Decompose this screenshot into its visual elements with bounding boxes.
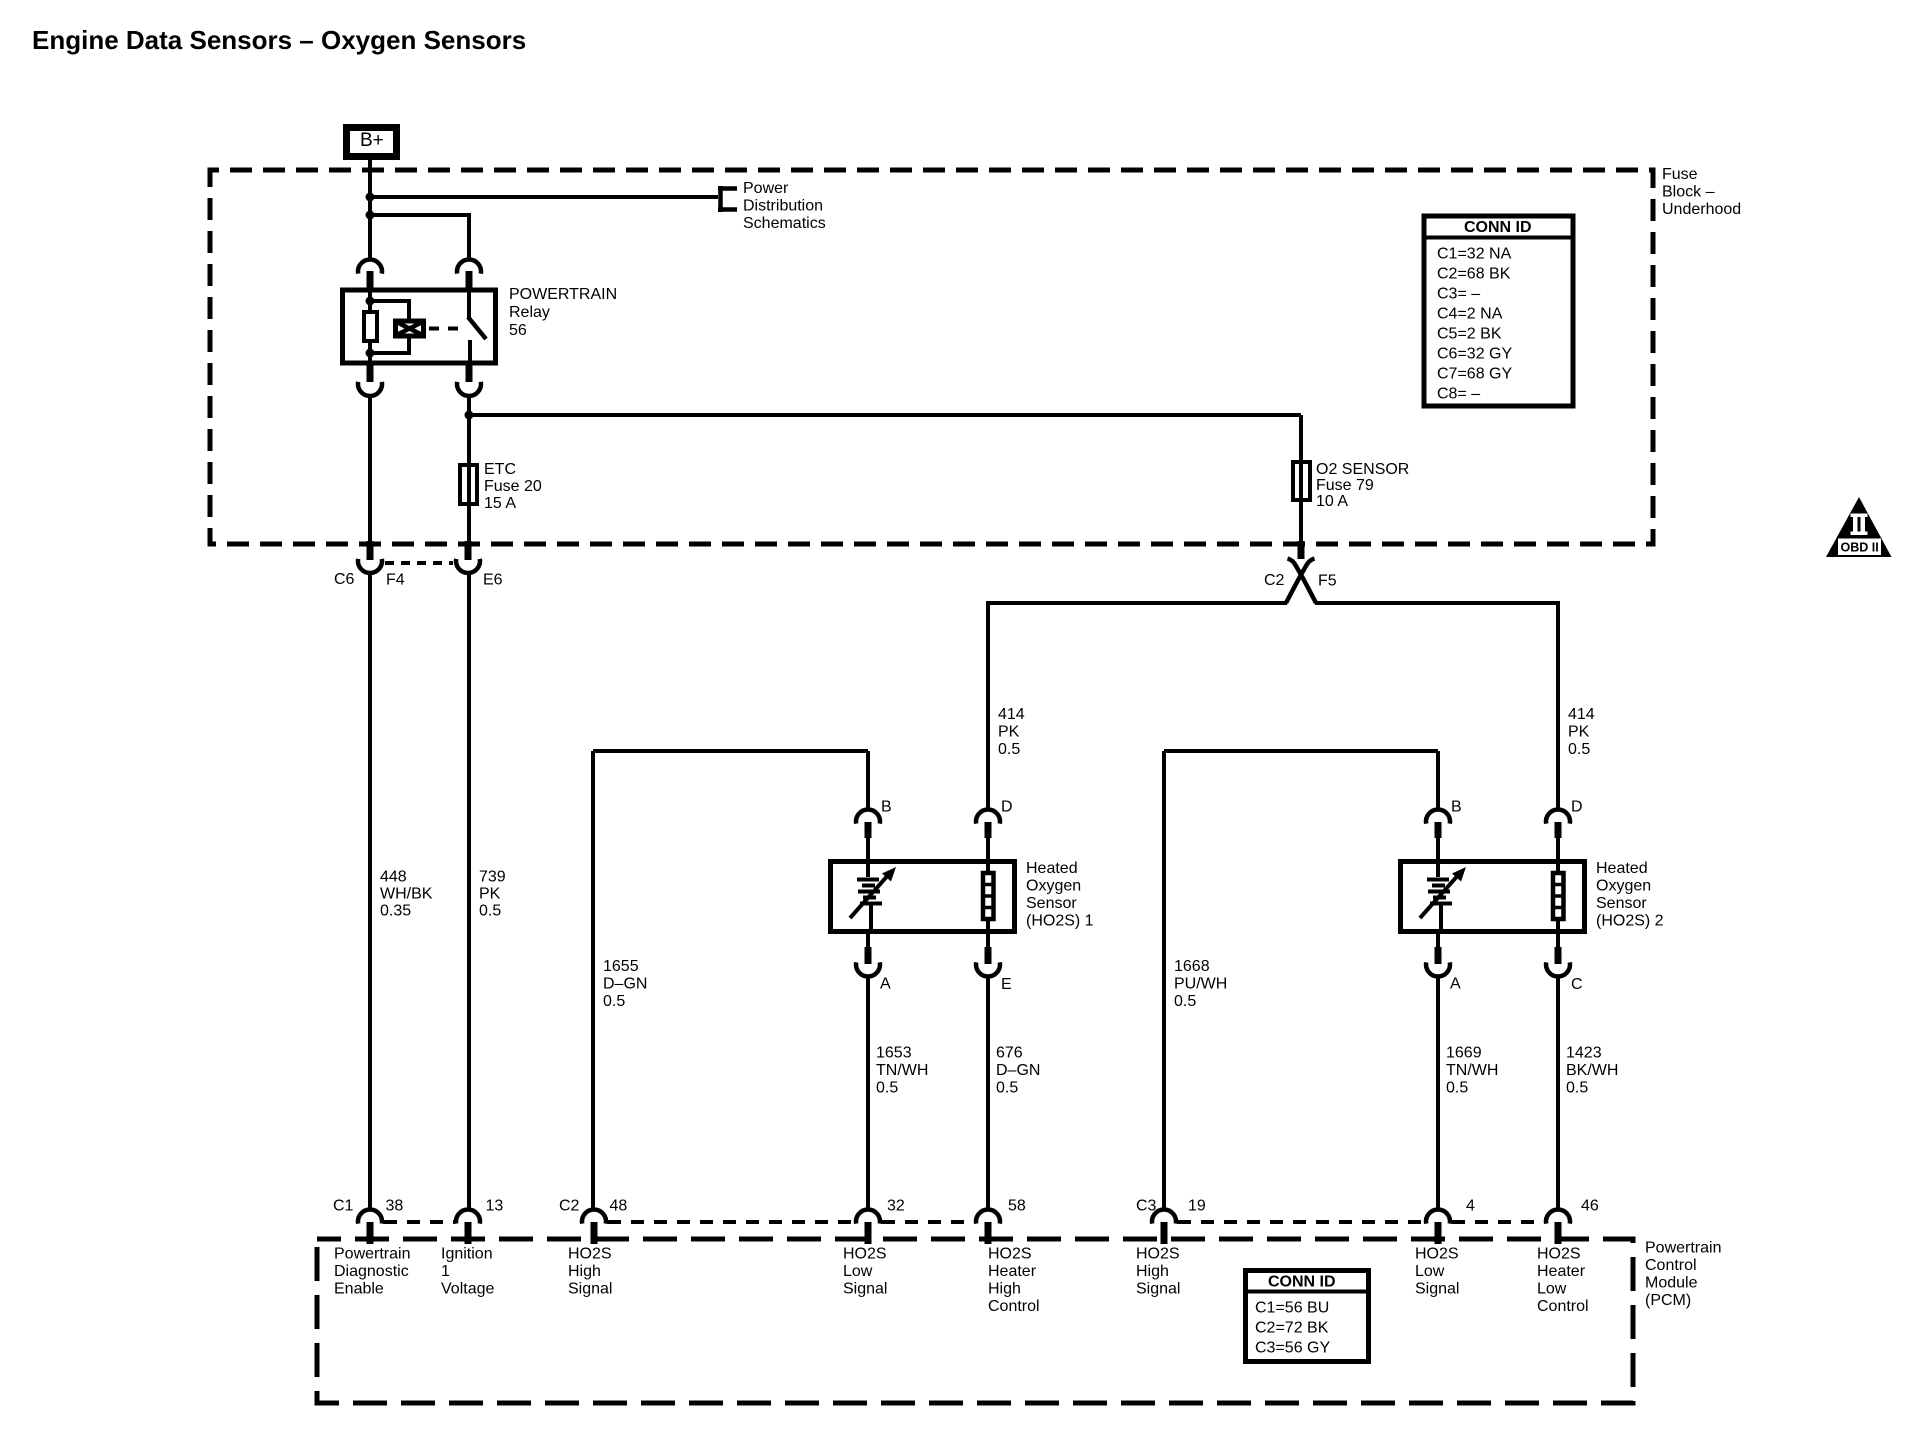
svg-text:C3= –: C3= – bbox=[1437, 286, 1480, 303]
svg-text:1655: 1655 bbox=[603, 958, 639, 975]
svg-text:Sensor: Sensor bbox=[1596, 895, 1647, 912]
svg-text:HO2S: HO2S bbox=[1415, 1246, 1459, 1263]
svg-text:High: High bbox=[568, 1263, 601, 1280]
svg-text:0.5: 0.5 bbox=[998, 741, 1020, 758]
svg-text:A: A bbox=[1450, 976, 1461, 993]
svg-text:C2: C2 bbox=[559, 1198, 580, 1215]
svg-text:C1=56 BU: C1=56 BU bbox=[1255, 1300, 1329, 1317]
svg-text:Sensor: Sensor bbox=[1026, 895, 1077, 912]
svg-text:Signal: Signal bbox=[843, 1281, 887, 1298]
svg-text:Signal: Signal bbox=[1136, 1281, 1180, 1298]
svg-text:OBD II: OBD II bbox=[1841, 541, 1879, 555]
svg-text:C6=32 GY: C6=32 GY bbox=[1437, 346, 1512, 363]
svg-text:Low: Low bbox=[1415, 1263, 1445, 1280]
svg-text:32: 32 bbox=[887, 1198, 905, 1215]
svg-text:Fuse 79: Fuse 79 bbox=[1316, 477, 1374, 494]
svg-text:15 A: 15 A bbox=[484, 495, 516, 512]
svg-text:10 A: 10 A bbox=[1316, 493, 1348, 510]
svg-text:Signal: Signal bbox=[568, 1281, 612, 1298]
svg-text:C3: C3 bbox=[1136, 1198, 1157, 1215]
svg-text:C6: C6 bbox=[334, 571, 355, 588]
svg-text:414: 414 bbox=[1568, 706, 1595, 723]
svg-text:ETC: ETC bbox=[484, 461, 516, 478]
svg-text:Fuse 20: Fuse 20 bbox=[484, 478, 542, 495]
svg-text:Distribution: Distribution bbox=[743, 198, 823, 215]
svg-text:0.5: 0.5 bbox=[876, 1080, 898, 1097]
svg-text:PU/WH: PU/WH bbox=[1174, 976, 1227, 993]
svg-text:Powertrain: Powertrain bbox=[334, 1246, 410, 1263]
svg-text:19: 19 bbox=[1188, 1198, 1206, 1215]
svg-text:C2: C2 bbox=[1264, 572, 1285, 589]
svg-text:Power: Power bbox=[743, 180, 789, 197]
svg-text:E6: E6 bbox=[483, 572, 503, 589]
svg-text:BK/WH: BK/WH bbox=[1566, 1062, 1618, 1079]
svg-text:Engine Data Sensors – Oxygen S: Engine Data Sensors – Oxygen Sensors bbox=[32, 25, 526, 55]
svg-text:739: 739 bbox=[479, 869, 506, 886]
svg-text:Low: Low bbox=[1537, 1281, 1567, 1298]
svg-text:PK: PK bbox=[1568, 724, 1590, 741]
svg-text:58: 58 bbox=[1008, 1198, 1026, 1215]
svg-text:POWERTRAIN: POWERTRAIN bbox=[509, 286, 617, 303]
svg-text:0.5: 0.5 bbox=[1566, 1080, 1588, 1097]
svg-text:48: 48 bbox=[610, 1198, 628, 1215]
svg-text:C3=56 GY: C3=56 GY bbox=[1255, 1340, 1330, 1357]
svg-text:HO2S: HO2S bbox=[843, 1246, 887, 1263]
svg-text:1: 1 bbox=[441, 1263, 450, 1280]
svg-text:C4=2 NA: C4=2 NA bbox=[1437, 306, 1503, 323]
svg-text:0.35: 0.35 bbox=[380, 903, 411, 920]
svg-text:448: 448 bbox=[380, 869, 407, 886]
svg-text:414: 414 bbox=[998, 706, 1025, 723]
svg-text:0.5: 0.5 bbox=[1446, 1080, 1468, 1097]
svg-text:Powertrain: Powertrain bbox=[1645, 1240, 1721, 1257]
svg-text:Heater: Heater bbox=[1537, 1263, 1586, 1280]
svg-text:C1=32 NA: C1=32 NA bbox=[1437, 246, 1512, 263]
svg-text:B: B bbox=[881, 799, 892, 816]
svg-text:Fuse: Fuse bbox=[1662, 166, 1698, 183]
svg-text:1653: 1653 bbox=[876, 1045, 912, 1062]
svg-text:D: D bbox=[1571, 799, 1583, 816]
svg-text:Control: Control bbox=[1645, 1257, 1697, 1274]
svg-text:(HO2S) 1: (HO2S) 1 bbox=[1026, 913, 1094, 930]
svg-text:Signal: Signal bbox=[1415, 1281, 1459, 1298]
svg-text:0.5: 0.5 bbox=[1568, 741, 1590, 758]
svg-text:Ignition: Ignition bbox=[441, 1246, 493, 1263]
svg-text:A: A bbox=[880, 976, 891, 993]
svg-text:Oxygen: Oxygen bbox=[1026, 878, 1081, 895]
svg-text:Module: Module bbox=[1645, 1275, 1698, 1292]
svg-text:(PCM): (PCM) bbox=[1645, 1292, 1691, 1309]
svg-text:F5: F5 bbox=[1318, 573, 1337, 590]
svg-text:676: 676 bbox=[996, 1045, 1023, 1062]
svg-text:F4: F4 bbox=[386, 572, 405, 589]
svg-text:0.5: 0.5 bbox=[603, 993, 625, 1010]
svg-text:C2=68 BK: C2=68 BK bbox=[1437, 266, 1511, 283]
svg-text:HO2S: HO2S bbox=[1136, 1246, 1180, 1263]
svg-text:1669: 1669 bbox=[1446, 1045, 1482, 1062]
svg-text:Underhood: Underhood bbox=[1662, 201, 1741, 218]
svg-text:TN/WH: TN/WH bbox=[876, 1062, 928, 1079]
svg-text:E: E bbox=[1001, 976, 1012, 993]
svg-text:1668: 1668 bbox=[1174, 958, 1210, 975]
svg-text:C1: C1 bbox=[333, 1198, 354, 1215]
svg-text:PK: PK bbox=[479, 886, 501, 903]
svg-text:(HO2S) 2: (HO2S) 2 bbox=[1596, 913, 1664, 930]
svg-text:High: High bbox=[988, 1281, 1021, 1298]
svg-text:0.5: 0.5 bbox=[479, 903, 501, 920]
svg-text:4: 4 bbox=[1466, 1198, 1475, 1215]
svg-text:Heater: Heater bbox=[988, 1263, 1037, 1280]
svg-text:Voltage: Voltage bbox=[441, 1281, 494, 1298]
svg-text:1423: 1423 bbox=[1566, 1045, 1602, 1062]
svg-text:PK: PK bbox=[998, 724, 1020, 741]
svg-text:Oxygen: Oxygen bbox=[1596, 878, 1651, 895]
svg-text:46: 46 bbox=[1581, 1198, 1599, 1215]
svg-text:D: D bbox=[1001, 799, 1013, 816]
svg-text:Control: Control bbox=[1537, 1298, 1589, 1315]
svg-text:HO2S: HO2S bbox=[568, 1246, 612, 1263]
svg-text:HO2S: HO2S bbox=[988, 1246, 1032, 1263]
svg-text:C: C bbox=[1571, 976, 1583, 993]
svg-text:38: 38 bbox=[386, 1198, 404, 1215]
svg-text:13: 13 bbox=[486, 1198, 504, 1215]
svg-text:High: High bbox=[1136, 1263, 1169, 1280]
svg-text:0.5: 0.5 bbox=[1174, 993, 1196, 1010]
svg-text:B+: B+ bbox=[360, 130, 384, 151]
svg-text:Low: Low bbox=[843, 1263, 873, 1280]
svg-text:Block –: Block – bbox=[1662, 184, 1715, 201]
svg-text:B: B bbox=[1451, 799, 1462, 816]
svg-text:C7=68 GY: C7=68 GY bbox=[1437, 366, 1512, 383]
svg-text:Heated: Heated bbox=[1596, 860, 1648, 877]
svg-text:D–GN: D–GN bbox=[603, 976, 647, 993]
svg-text:Relay: Relay bbox=[509, 304, 550, 321]
svg-text:CONN ID: CONN ID bbox=[1464, 219, 1532, 236]
svg-text:Diagnostic: Diagnostic bbox=[334, 1263, 409, 1280]
svg-text:C5=2 BK: C5=2 BK bbox=[1437, 326, 1502, 343]
svg-text:Control: Control bbox=[988, 1298, 1040, 1315]
svg-text:C8= –: C8= – bbox=[1437, 386, 1480, 403]
svg-text:WH/BK: WH/BK bbox=[380, 886, 433, 903]
svg-text:Heated: Heated bbox=[1026, 860, 1078, 877]
svg-text:D–GN: D–GN bbox=[996, 1062, 1040, 1079]
svg-text:0.5: 0.5 bbox=[996, 1080, 1018, 1097]
svg-text:C2=72 BK: C2=72 BK bbox=[1255, 1320, 1329, 1337]
svg-text:CONN ID: CONN ID bbox=[1268, 1274, 1336, 1291]
svg-text:Schematics: Schematics bbox=[743, 215, 826, 232]
svg-text:O2 SENSOR: O2 SENSOR bbox=[1316, 461, 1409, 478]
svg-text:56: 56 bbox=[509, 322, 527, 339]
svg-text:Enable: Enable bbox=[334, 1281, 384, 1298]
svg-text:TN/WH: TN/WH bbox=[1446, 1062, 1498, 1079]
svg-text:HO2S: HO2S bbox=[1537, 1246, 1581, 1263]
